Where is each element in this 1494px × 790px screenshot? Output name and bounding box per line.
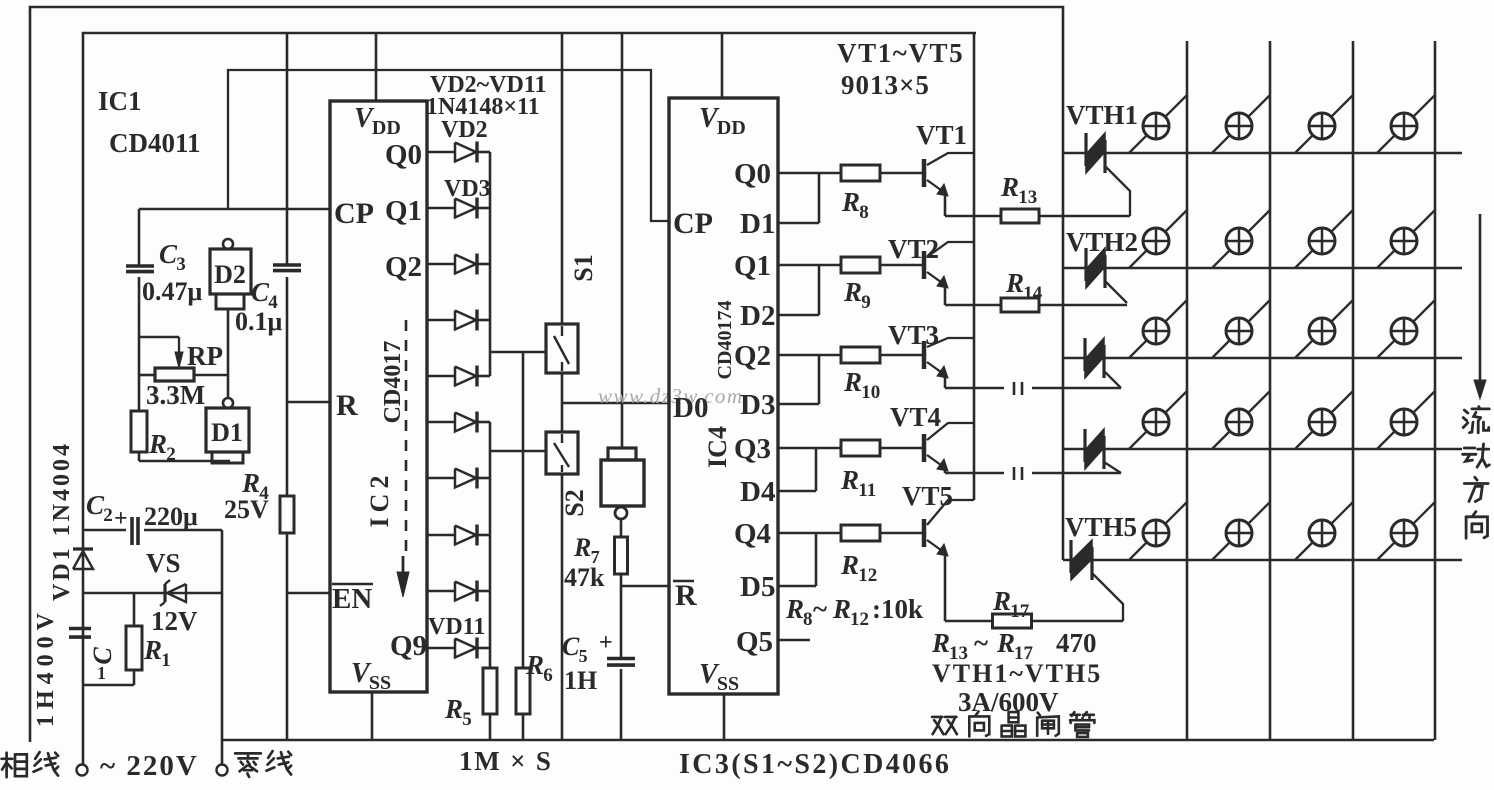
svg-text:C: C (86, 490, 105, 520)
wire upper bus tap to S1 (490, 351, 546, 354)
wire IC4 VSS stub (723, 694, 726, 740)
capacitor C4 (273, 33, 301, 402)
wire +12V rail (inner top) (83, 33, 976, 529)
wire IC4 Q4 to R12 and D5 feedback (778, 533, 841, 586)
node neutral terminal (217, 765, 228, 776)
label IC2 CP (334, 197, 374, 230)
label R9 (843, 277, 871, 313)
capacitor C5 (607, 586, 635, 740)
lamp row1 col2 (1212, 95, 1270, 153)
diode VD8 (427, 468, 490, 489)
resistor R4 (280, 402, 294, 593)
label IC4 vertical (703, 426, 732, 468)
svg-text:5: 5 (579, 646, 588, 666)
svg-text:6: 6 (543, 665, 553, 686)
svg-text:IC1: IC1 (98, 86, 142, 116)
svg-text:R: R (444, 694, 463, 724)
svg-text:R: R (840, 550, 859, 580)
svg-text:VTH2: VTH2 (1066, 227, 1138, 257)
wire lamp row 1 (1063, 152, 1462, 155)
label VTH1~VTH5 (932, 659, 1102, 688)
resistor R11 (841, 440, 922, 456)
wire lower bus tap to S2 (490, 450, 546, 453)
label VD1 1N4004 (49, 441, 75, 601)
svg-text:Q5: Q5 (736, 626, 773, 658)
wire VT5 emitter to R17 (945, 553, 993, 621)
svg-text:D3: D3 (740, 389, 775, 421)
lamp row3 col3 (1295, 300, 1353, 358)
svg-text:C: C (562, 632, 580, 661)
svg-text:D1: D1 (211, 418, 243, 447)
label 1H400V (33, 607, 59, 727)
svg-text:CD40174: CD40174 (714, 301, 736, 380)
svg-text:~: ~ (974, 628, 988, 658)
svg-text:10: 10 (861, 382, 880, 403)
svg-text:S2: S2 (560, 489, 589, 516)
wire S2 top stub (561, 403, 564, 432)
resistor R7 (615, 519, 628, 586)
label R1 (143, 635, 171, 671)
label R13~R17 470 (931, 628, 1097, 664)
svg-text:R: R (573, 533, 591, 562)
svg-text:CP: CP (334, 197, 374, 230)
svg-text:VT1~VT5: VT1~VT5 (837, 38, 964, 68)
label IC4 Q3 (734, 433, 771, 465)
svg-text:S1: S1 (569, 254, 598, 281)
svg-text:VS: VS (146, 548, 181, 578)
svg-text::10k: :10k (872, 594, 923, 624)
svg-text:Q2: Q2 (385, 251, 422, 283)
wire C3 branch (138, 209, 141, 375)
triac VTH4 (1085, 429, 1121, 473)
svg-text:R: R (996, 628, 1015, 658)
label R10 (843, 367, 880, 403)
label IC4 VDD (699, 103, 746, 139)
wire phase branch vertical (82, 529, 85, 765)
wire R2 bottom to D1 input (139, 452, 230, 461)
svg-text:8: 8 (859, 202, 869, 223)
label 220u (144, 502, 198, 531)
wire clock line from oscillator to IC4 CP (228, 70, 668, 221)
svg-text:R: R (832, 594, 851, 624)
label IC4 VSS (699, 659, 739, 695)
label RP (187, 341, 223, 371)
svg-text:DD: DD (372, 117, 401, 139)
svg-text:R: R (525, 650, 544, 680)
lamp row1 col1 (1129, 95, 1187, 153)
svg-text:D2: D2 (740, 300, 775, 332)
label IC4 D4 (740, 476, 775, 508)
svg-text:Q4: Q4 (734, 518, 771, 550)
label IC4 D5 (740, 571, 775, 603)
label R2 (148, 429, 176, 465)
lamp row4 col1 (1129, 391, 1187, 449)
svg-text:www.dz3w.com: www.dz3w.com (598, 384, 744, 408)
lamp row5 col3 (1295, 502, 1353, 560)
label IC4 Rbar (673, 579, 697, 612)
label IC2 vertical (365, 471, 394, 528)
label S2 (560, 489, 589, 516)
svg-text:470: 470 (1056, 628, 1097, 658)
wire diode bus upper (489, 152, 492, 376)
wire lower bus to R5 (489, 648, 492, 668)
resistor R9 (841, 257, 922, 273)
label 25V (224, 495, 269, 524)
wire CP line to IC2 (139, 208, 329, 211)
label IC4 Q1 (734, 250, 771, 282)
svg-text:Q9: Q9 (390, 630, 427, 662)
diode VD6 (427, 366, 490, 387)
node phase terminal (77, 765, 88, 776)
svg-text:Q1: Q1 (734, 250, 771, 282)
svg-text:+: + (114, 506, 128, 532)
svg-text:14: 14 (1023, 283, 1043, 304)
label watermark (598, 384, 744, 408)
wire lamp column 4 (1434, 41, 1437, 740)
label 1N4148x11 (426, 94, 540, 120)
label VTH2 (1066, 227, 1138, 257)
label R8 (841, 187, 869, 223)
svg-text:VD2: VD2 (441, 117, 488, 143)
svg-text:Q3: Q3 (734, 433, 771, 465)
label VD11 (428, 614, 485, 640)
diode VD4 (427, 254, 490, 275)
svg-text:CD4017: CD4017 (380, 341, 406, 424)
lamp row1 col3 (1295, 95, 1353, 153)
wire IC4 Q2 to R10 and D3 feedback (778, 355, 841, 404)
switch S1 (546, 324, 578, 373)
label VT2 (888, 234, 939, 264)
label IC3(S1~S2)CD4066 (679, 749, 951, 780)
svg-text:R: R (336, 389, 358, 422)
wire S1 top stub (561, 33, 564, 324)
gate D3 (inverter to R-bar) (601, 33, 644, 519)
resistor R6 (516, 668, 530, 740)
wire EN wire (287, 593, 329, 740)
svg-text:Q1: Q1 (385, 195, 422, 227)
label ling-xian (235, 751, 291, 777)
svg-text:13: 13 (1018, 187, 1037, 208)
lamp row1 col4 (1377, 95, 1435, 153)
wire R-bar wire (621, 585, 668, 588)
label IC4 CP (673, 207, 713, 240)
wire D0 line (562, 402, 668, 405)
lamp row2 col2 (1212, 210, 1270, 268)
svg-text:5: 5 (462, 709, 472, 730)
label 0.1u (235, 307, 283, 336)
label R5 (444, 694, 472, 730)
label IC4 D1 (740, 208, 775, 240)
svg-text:2: 2 (103, 505, 113, 526)
wire IC2 VSS stub (371, 692, 374, 740)
label VTH1 (1066, 100, 1138, 130)
label IC4 Q4 (734, 518, 771, 550)
svg-text:47k: 47k (564, 563, 605, 592)
lamp row2 col4 (1377, 210, 1435, 268)
svg-text:EN: EN (332, 583, 372, 615)
svg-text:DD: DD (717, 117, 746, 139)
triac VTH2 (1086, 248, 1127, 303)
label R14 (1005, 268, 1043, 304)
label ~220V (100, 750, 199, 782)
resistor R2 (131, 411, 147, 452)
svg-text:VT3: VT3 (888, 320, 939, 350)
svg-text:~ 220V: ~ 220V (100, 750, 199, 782)
label IC2 R (336, 389, 358, 422)
svg-text:VD11: VD11 (428, 614, 485, 640)
label C5 (562, 630, 613, 666)
label 1H (564, 666, 597, 695)
svg-text:CD4011: CD4011 (109, 128, 201, 158)
label VT5 (902, 481, 953, 511)
label IC2 VDD (354, 103, 401, 139)
wire VT collector rail (973, 33, 976, 500)
label IC2 EN (332, 583, 373, 615)
svg-text:1H400V: 1H400V (33, 607, 59, 727)
label 9013x5 (841, 70, 930, 100)
label flow direction arrow (1474, 214, 1486, 399)
wire ground/neutral bus (222, 739, 1434, 742)
svg-text:VTH5: VTH5 (1065, 512, 1137, 542)
svg-text:17: 17 (1010, 601, 1030, 622)
svg-text:VD1 1N4004: VD1 1N4004 (49, 441, 75, 601)
wire lamp row 5 (1063, 559, 1462, 562)
label IC2 Q9 (390, 630, 427, 662)
wire S1 bottom to D0 line (561, 373, 564, 403)
resistor R14 (1001, 298, 1127, 312)
diode VD10 (427, 581, 490, 602)
svg-text:D1: D1 (740, 208, 775, 240)
label VTH5 (1065, 512, 1137, 542)
label IC4 Q5 (736, 626, 773, 658)
wire diode bus lower (489, 422, 492, 648)
wire IC4 Q5 stub (778, 639, 810, 642)
transistor VT5 (924, 500, 974, 556)
svg-text:D4: D4 (740, 476, 775, 508)
resistor R10 (841, 347, 922, 363)
svg-text:9013×5: 9013×5 (841, 70, 930, 100)
svg-text:R: R (843, 277, 862, 307)
svg-text:D0: D0 (673, 392, 708, 424)
wire C2 top wire (83, 529, 222, 532)
wire neutral vertical (221, 530, 224, 765)
label IC2 VSS (351, 658, 391, 694)
label VT3 (888, 320, 939, 350)
diode VD7 (427, 412, 490, 433)
svg-text:Q2: Q2 (734, 340, 771, 372)
svg-text:3: 3 (176, 254, 186, 275)
svg-text:R: R (931, 628, 950, 658)
label R4 (241, 468, 269, 504)
svg-text:VTH1~VTH5: VTH1~VTH5 (932, 659, 1102, 688)
label R12 (840, 550, 877, 586)
lamp row4 col2 (1212, 391, 1270, 449)
wire IC2 VDD stub (375, 33, 378, 101)
svg-text:R: R (241, 468, 260, 498)
label C3 (159, 239, 186, 275)
wire RP to R2 (138, 375, 141, 411)
resistor R17 (993, 614, 1124, 628)
label IC4 Q0 (734, 158, 771, 190)
resistor R13 (1001, 209, 1130, 223)
label bidirectional thyristor (932, 712, 1094, 737)
label CD4011 (109, 128, 201, 158)
label IC4 D0 (673, 392, 708, 424)
svg-text:VD3: VD3 (444, 176, 491, 202)
wire outer frame (phase line loop) (30, 7, 1063, 742)
wire lamp column 1 (1186, 41, 1189, 740)
label R6 (525, 650, 553, 686)
resistor R12 (841, 525, 922, 541)
label C4 (251, 277, 278, 313)
label IC2 Q1 (385, 195, 422, 227)
wire lamp column 2 (1269, 41, 1272, 740)
svg-text:R: R (992, 586, 1011, 616)
op-amp IC4 box (CD40174) (669, 98, 778, 694)
svg-text:RP: RP (187, 341, 223, 371)
transistor VT1 (924, 153, 974, 196)
diode VD5 (427, 310, 490, 331)
lamp row3 col4 (1377, 300, 1435, 358)
wire IC4 Q1 to R9 and D2 feedback (778, 265, 841, 315)
wire R pin wire (287, 401, 329, 404)
svg-text:SS: SS (717, 673, 739, 695)
label 0.47u (142, 277, 203, 306)
wire VT2 emitter to R14 (945, 285, 1002, 305)
svg-text:R: R (143, 635, 162, 665)
label S1 (569, 254, 598, 281)
wire lamp row 4 (1063, 448, 1462, 451)
svg-text:1: 1 (161, 650, 171, 671)
svg-text:0.47μ: 0.47μ (142, 277, 203, 306)
svg-text:IC3(S1~S2)CD4066: IC3(S1~S2)CD4066 (679, 749, 951, 780)
svg-text:1: 1 (97, 663, 106, 683)
svg-text:12V: 12V (151, 606, 198, 636)
transistor VT4 (924, 423, 974, 471)
svg-text:3.3M: 3.3M (146, 380, 205, 410)
wire VT3 emitter with break (945, 375, 1121, 395)
label R13 (1000, 172, 1037, 208)
wire D2 out to D1 (227, 309, 230, 398)
gate D1 (IC1 NAND) (206, 398, 249, 463)
wire RP wiper (139, 336, 179, 339)
wire S2 bottom to ground bus (561, 474, 564, 740)
svg-text:VT2: VT2 (888, 234, 939, 264)
label R7 (573, 533, 600, 567)
svg-text:VT5: VT5 (902, 481, 953, 511)
label IC4 D2 (740, 300, 775, 332)
label CD40174 vertical (714, 301, 736, 380)
svg-text:SS: SS (369, 672, 391, 694)
wire IC2 internal sequence dashes (397, 320, 409, 597)
gate D2 (IC1 NAND) (210, 239, 251, 309)
triac VTH1 (1086, 133, 1130, 216)
resistor R5 (483, 668, 497, 740)
label R8~R12:10k (785, 594, 923, 630)
label VD2~VD11 (430, 72, 546, 98)
triac VTH3 (1085, 338, 1121, 388)
svg-text:Q0: Q0 (385, 139, 422, 171)
label IC2 Q0 (385, 139, 422, 171)
label VD2 (441, 117, 488, 143)
wire lamp column 3 (1352, 41, 1355, 740)
wire IC4 Q3 to R11 and D4 feedback (778, 448, 841, 491)
label VT1 (916, 120, 967, 150)
label IC4 D3 (740, 389, 775, 421)
label 1M x S (459, 746, 553, 776)
svg-text:0.1μ: 0.1μ (235, 307, 283, 336)
label VT1~VT5 (837, 38, 964, 68)
wire VT4 emitter with break (945, 467, 1121, 480)
lamp row3 col1 (1129, 300, 1187, 358)
svg-text:11: 11 (858, 480, 876, 501)
diode VD9 (427, 525, 490, 546)
svg-text:12: 12 (850, 609, 869, 630)
svg-text:C: C (159, 239, 178, 269)
label 12V (151, 606, 198, 636)
svg-text:CP: CP (673, 207, 713, 240)
svg-text:R: R (785, 594, 804, 624)
svg-text:IC4: IC4 (703, 426, 732, 468)
switch S2 (546, 432, 578, 474)
lamp row2 col1 (1129, 210, 1187, 268)
diode VD3 (427, 198, 490, 219)
svg-text:1M × S: 1M × S (459, 746, 553, 776)
svg-text:25V: 25V (224, 495, 269, 524)
transistor VT2 (924, 242, 974, 288)
svg-text:R: R (841, 187, 860, 217)
label xiang-xian (2, 752, 59, 777)
svg-text:1H: 1H (564, 666, 597, 695)
label IC4 Q2 (734, 340, 771, 372)
svg-text:IC2: IC2 (365, 471, 394, 528)
svg-text:D2: D2 (214, 260, 246, 289)
svg-text:R: R (1005, 268, 1024, 298)
op-amp IC2 box (CD4017) (330, 101, 427, 692)
svg-text:R: R (148, 429, 167, 459)
svg-text:R: R (843, 367, 862, 397)
svg-text:12: 12 (858, 565, 877, 586)
diode VD1 (73, 549, 93, 569)
wire VT1 emitter to R13 (945, 193, 1002, 216)
svg-text:9: 9 (861, 292, 871, 313)
triac VTH5 (1071, 540, 1123, 621)
svg-text:8: 8 (803, 609, 813, 630)
wire VS wire (83, 592, 222, 595)
wire RP line (139, 374, 228, 377)
label R11 (840, 465, 876, 501)
label C2 (86, 490, 113, 526)
label IC1 (98, 86, 142, 116)
svg-text:R: R (840, 465, 859, 495)
lamp row5 col1 (1129, 502, 1187, 560)
potentiometer RP (155, 337, 194, 381)
label 3.3M (146, 380, 205, 410)
transistor VT3 (924, 338, 974, 378)
svg-text:Q0: Q0 (734, 158, 771, 190)
label 3A/600V (958, 687, 1059, 717)
svg-text:VTH1: VTH1 (1066, 100, 1138, 130)
resistor R1 (126, 593, 142, 685)
label VD3 (444, 176, 491, 202)
wire R1 bottom (83, 684, 134, 687)
diode VD11 (427, 638, 490, 659)
lamp row3 col2 (1212, 300, 1270, 358)
lamp row2 col3 (1295, 210, 1353, 268)
svg-text:R: R (675, 579, 697, 612)
svg-text:R: R (1000, 172, 1019, 202)
lamp row4 col4 (1377, 391, 1435, 449)
